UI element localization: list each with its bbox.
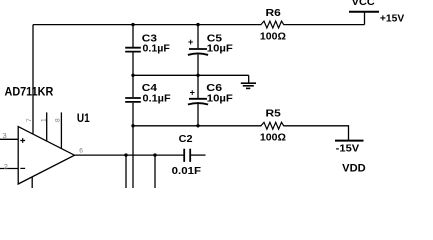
junction lower rail at column B <box>196 124 199 127</box>
label C5 <box>207 33 222 45</box>
op-amp minus input mark <box>20 167 25 169</box>
svg-text:0.01F: 0.01F <box>172 165 202 177</box>
pin number 7 rotated <box>26 118 33 122</box>
pin number 6 <box>79 147 83 154</box>
power terminal VCC bar <box>349 11 379 13</box>
junction output at stub B <box>153 153 156 156</box>
net label +15V <box>380 13 404 25</box>
wire column B lower (C6 to lower rail) <box>197 104 199 126</box>
wire pin 4 stub <box>31 177 33 188</box>
label C5 plus <box>188 37 193 47</box>
junction middle rail at column A <box>131 74 134 77</box>
label C3 value 0.1uF <box>143 43 171 55</box>
ground <box>241 75 256 88</box>
svg-text:+15V: +15V <box>380 13 404 25</box>
label R5 value 100ohm <box>260 131 286 143</box>
wire VCC stub <box>364 12 366 25</box>
svg-text:VCC: VCC <box>352 0 375 8</box>
svg-text:+: + <box>190 88 195 98</box>
label C2 value 0.01F <box>172 165 202 177</box>
label C3 <box>142 33 157 45</box>
wire lower rail right segment <box>283 126 348 141</box>
wire column A middle (C3 to C4) <box>132 53 134 98</box>
label AD711KR <box>5 85 54 98</box>
svg-text:-15V: -15V <box>336 143 360 155</box>
svg-text:+: + <box>188 37 193 47</box>
wire pin 1 stub <box>46 112 48 141</box>
svg-text:8: 8 <box>55 118 62 122</box>
resistor R6 <box>261 21 284 28</box>
svg-text:6: 6 <box>79 147 83 154</box>
svg-text:0.1µF: 0.1µF <box>143 93 172 105</box>
svg-text:100Ω: 100Ω <box>260 31 286 43</box>
svg-text:2: 2 <box>4 162 8 171</box>
label C6 <box>206 82 222 94</box>
capacitor C3 <box>125 48 141 52</box>
capacitor C2 <box>184 149 190 162</box>
svg-text:R5: R5 <box>266 108 281 120</box>
wire top rail left segment <box>33 24 261 26</box>
wire C2 right <box>191 154 206 156</box>
pin number 8 rotated <box>55 118 62 122</box>
label U1 <box>77 111 90 125</box>
op-amp plus input mark <box>20 138 25 143</box>
wire output pin 6 <box>75 154 184 156</box>
junction top rail at C3 <box>131 23 134 26</box>
capacitor C4 <box>125 98 141 102</box>
pin number 1 rotated <box>40 118 47 122</box>
label C6 value 10uF <box>207 93 234 105</box>
net label VCC <box>352 0 375 8</box>
wire column A upper (top rail to C3) <box>132 25 134 47</box>
wire column A lower (C4 down to bottom edge) <box>132 103 134 188</box>
svg-text:0.1µF: 0.1µF <box>143 43 171 55</box>
label R6 value 100ohm <box>260 31 286 43</box>
junction lower rail at column A <box>131 124 134 127</box>
label R6 <box>266 7 281 19</box>
junction top rail at C5 <box>196 23 199 26</box>
resistor R5 <box>261 122 284 129</box>
svg-text:1: 1 <box>40 118 47 122</box>
power terminal -15V bar <box>335 140 364 142</box>
pin number 2 <box>4 162 8 171</box>
svg-text:R6: R6 <box>266 7 281 19</box>
label C5 value 10uF <box>207 43 234 55</box>
wire pin 2 input <box>0 168 18 170</box>
junction output at stub A <box>124 153 127 156</box>
svg-text:VDD: VDD <box>342 162 366 174</box>
wire column B middle (C5 to C6) <box>197 55 199 99</box>
svg-text:10µF: 10µF <box>207 93 234 105</box>
svg-text:3: 3 <box>3 131 7 140</box>
junction middle rail at column B <box>196 74 199 77</box>
capacitor C5 <box>188 49 208 55</box>
net label -15V <box>336 143 360 155</box>
capacitor C6 <box>188 99 208 105</box>
svg-text:10µF: 10µF <box>207 43 234 55</box>
svg-text:U1: U1 <box>77 111 90 125</box>
wire pin 8 stub <box>60 112 62 148</box>
label C4 value 0.1uF <box>143 93 172 105</box>
svg-text:AD711KR: AD711KR <box>5 85 54 98</box>
op-amp U1 triangle <box>18 127 74 184</box>
wire stub down A <box>125 155 127 188</box>
svg-text:100Ω: 100Ω <box>260 131 286 143</box>
pin number 3 <box>3 131 7 140</box>
net label VDD <box>342 162 366 174</box>
label R5 <box>266 108 281 120</box>
wire stub down B <box>154 155 156 188</box>
svg-text:7: 7 <box>26 118 33 122</box>
wire left vertical to op-amp pin 7 <box>32 25 34 135</box>
wire top rail right segment <box>283 24 364 26</box>
label C6 plus <box>190 88 195 98</box>
label C4 <box>142 82 157 94</box>
svg-text:C2: C2 <box>179 133 193 145</box>
wire column B upper (top rail to C5) <box>197 25 199 49</box>
wire pin 3 input <box>0 138 18 140</box>
label C2 <box>179 133 193 145</box>
wire lower rail left segment <box>133 125 261 127</box>
wire middle rail <box>133 74 249 76</box>
